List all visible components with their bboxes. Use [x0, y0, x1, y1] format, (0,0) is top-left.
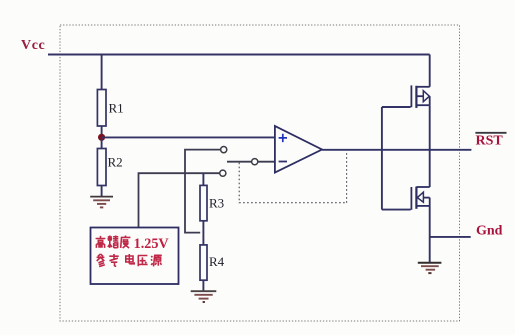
- wire Vcc rail down to Q1 drain: [429, 55, 431, 87]
- wire gate rail: [381, 107, 383, 210]
- svg-text:Gnd: Gnd: [476, 224, 503, 239]
- ground under R2: [90, 197, 113, 208]
- transistor Q2 (lower NMOS): [411, 187, 429, 210]
- svg-text:R4: R4: [209, 254, 225, 269]
- wire switch throw T1 to R3/R4 junction: [185, 150, 221, 233]
- ground at output stage: [418, 263, 442, 273]
- dotted feedback path: [239, 151, 346, 203]
- switch pole arm wire: [227, 161, 252, 163]
- wire node A to R2: [101, 139, 103, 149]
- label 高精度1.25V 参考电压源: [96, 236, 162, 267]
- wire Gnd branch: [430, 236, 471, 238]
- resistor R1: [97, 90, 106, 127]
- reference source box: [91, 228, 179, 285]
- node A junction dot: [98, 134, 105, 141]
- char 电: [126, 254, 134, 264]
- svg-text:1.25V: 1.25V: [134, 236, 170, 252]
- wire Q2 source down to ground: [429, 206, 431, 262]
- char 高: [96, 236, 106, 248]
- wire pole to comparator minus input: [258, 161, 275, 163]
- wire R3 top lead: [202, 173, 204, 185]
- wire R2 to ground: [101, 186, 103, 197]
- ground under R4: [191, 291, 217, 302]
- wire output node down to Q2 drain: [429, 150, 431, 187]
- svg-text:R3: R3: [209, 196, 224, 211]
- char 度: [121, 236, 131, 249]
- wire upper gate lead: [382, 106, 411, 108]
- svg-text:R1: R1: [109, 101, 124, 116]
- wire R3 to R4: [202, 221, 204, 245]
- wire reference output riser to throw T2 and R3 top: [139, 173, 220, 227]
- switch pole circle: [252, 159, 258, 165]
- wire R1 bottom lead to node A: [101, 126, 103, 136]
- svg-text:Vcc: Vcc: [21, 38, 45, 53]
- wire comparator output to RST terminal: [322, 149, 471, 151]
- wire Vcc rail: [48, 54, 430, 56]
- resistor R4: [200, 245, 207, 280]
- wire node A to comparator plus input: [102, 136, 275, 138]
- char 源: [151, 255, 162, 266]
- wire lower gate lead: [382, 209, 411, 211]
- char 精: [108, 236, 119, 248]
- wire R1 top lead: [101, 55, 103, 90]
- wire R4 to ground: [202, 280, 204, 290]
- transistor Q1 (upper PMOS): [411, 85, 429, 108]
- char 考: [109, 254, 118, 266]
- resistor R2: [97, 149, 106, 186]
- wire Q1 source down to output node: [429, 105, 431, 150]
- terminal circle T1: [221, 147, 227, 153]
- RST overline: [475, 132, 506, 134]
- char 参: [97, 254, 105, 267]
- char 压: [138, 256, 148, 267]
- terminal circle T2: [220, 170, 226, 176]
- minus sign: [279, 161, 287, 163]
- resistor R3: [200, 185, 207, 220]
- svg-text:RST: RST: [476, 134, 504, 149]
- plus sign: [279, 134, 287, 142]
- IC boundary dashed box: [60, 25, 460, 321]
- op-amp U1 comparator triangle: [275, 126, 322, 173]
- svg-text:R2: R2: [108, 155, 123, 170]
